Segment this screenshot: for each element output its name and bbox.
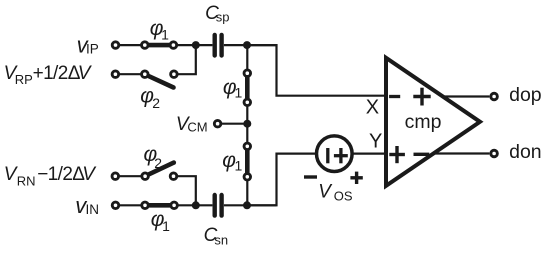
voltage source VOS circle xyxy=(317,136,353,172)
svg-text:sn: sn xyxy=(214,232,228,247)
svg-text:−1/2Δ: −1/2Δ xyxy=(37,164,85,185)
wire row D cap to corner xyxy=(224,204,277,206)
switch contact vertical bottom lower xyxy=(244,174,251,181)
svg-text:1: 1 xyxy=(235,157,243,173)
svg-text:RN: RN xyxy=(17,174,36,189)
junction node row A left xyxy=(192,41,200,49)
wire node to VOS source xyxy=(247,154,317,206)
op-amp cmp triangle xyxy=(386,58,480,186)
cmp X input plus sign xyxy=(413,88,430,106)
switch contact vertical bottom upper xyxy=(244,143,251,150)
wire row C right to row D junction xyxy=(178,176,196,205)
wire row A cap to corner xyxy=(224,44,277,46)
junction node VCM xyxy=(243,120,251,128)
cmp Y input plus sign xyxy=(389,146,405,163)
voltage source VOS internal bar xyxy=(326,148,329,163)
junction node row D left xyxy=(192,201,200,209)
wire VRN row C xyxy=(115,175,145,177)
svg-text:2: 2 xyxy=(154,155,162,171)
switch pivot row B xyxy=(142,71,149,78)
svg-text:V: V xyxy=(78,63,93,84)
svg-text:CM: CM xyxy=(187,119,207,134)
svg-text:V: V xyxy=(82,164,97,185)
switch contact row A left xyxy=(142,42,149,49)
switch contact row D left xyxy=(142,202,149,209)
switch phi2 row C open arm xyxy=(147,163,174,176)
svg-text:1: 1 xyxy=(161,27,169,43)
svg-text:V: V xyxy=(318,182,333,203)
svg-text:X: X xyxy=(366,97,379,119)
wire row B right to row A junction xyxy=(178,45,196,74)
switch phi2 row B open arm xyxy=(147,75,174,87)
wire VCM node to phi1 bottom switch xyxy=(246,124,248,147)
svg-text:Y: Y xyxy=(369,131,382,153)
switch contact row B right xyxy=(171,71,178,78)
wire vIN row D xyxy=(116,204,213,206)
junction node row D right xyxy=(243,201,251,209)
terminal VRP xyxy=(112,71,119,78)
svg-text:sp: sp xyxy=(216,9,230,24)
svg-text:2: 2 xyxy=(152,95,160,111)
svg-text:1: 1 xyxy=(235,84,243,100)
switch phi1 row A closed bar xyxy=(147,43,172,48)
cmp X input minus sign xyxy=(389,95,400,98)
svg-text:don: don xyxy=(509,141,542,163)
switch phi1 row D closed bar xyxy=(147,203,173,208)
capacitor Csn plates xyxy=(215,195,222,216)
wire vIP row A xyxy=(116,44,213,46)
switch phi1 vertical top bar xyxy=(245,75,250,100)
svg-text:1: 1 xyxy=(162,218,170,234)
switch contact vertical top upper xyxy=(244,70,251,77)
terminal dop xyxy=(491,93,498,100)
switch contact vertical top lower xyxy=(244,99,251,106)
wire VRP row B xyxy=(115,73,144,75)
terminal vIP xyxy=(112,42,119,49)
terminal don xyxy=(491,150,498,157)
svg-text:OS: OS xyxy=(334,188,353,203)
wire cmp output to don xyxy=(433,152,489,154)
switch pivot row C xyxy=(142,173,149,180)
switch contact row C right xyxy=(170,173,177,180)
svg-text:IP: IP xyxy=(86,41,99,56)
wire node A to phi1 top switch xyxy=(246,45,248,73)
svg-text:+1/2Δ: +1/2Δ xyxy=(33,63,81,84)
voltage source VOS internal plus xyxy=(334,148,348,163)
svg-text:dop: dop xyxy=(509,84,542,106)
wire cmp output to dop xyxy=(443,95,490,97)
wire VCM terminal xyxy=(218,123,248,125)
junction node row A right xyxy=(243,41,251,49)
VOS minus sign xyxy=(304,175,317,178)
svg-text:RP: RP xyxy=(15,72,33,87)
wire VOS to comparator Y input xyxy=(352,153,386,155)
wire node to comparator X input xyxy=(247,45,386,96)
cmp Y input minus sign xyxy=(414,153,430,156)
capacitor Csp plates xyxy=(215,35,222,56)
VOS plus sign xyxy=(350,172,362,184)
switch contact row A right xyxy=(170,42,177,49)
wire phi1 bottom switch to row D xyxy=(246,177,248,206)
switch phi1 vertical bottom bar xyxy=(245,148,250,175)
terminal VRN xyxy=(112,173,119,180)
terminal vIN xyxy=(112,202,119,209)
svg-text:IN: IN xyxy=(86,202,100,217)
switch contact row D right xyxy=(171,202,178,209)
terminal VCM xyxy=(214,120,221,127)
svg-text:cmp: cmp xyxy=(405,111,442,133)
wire phi1 top switch to VCM node xyxy=(246,102,248,123)
